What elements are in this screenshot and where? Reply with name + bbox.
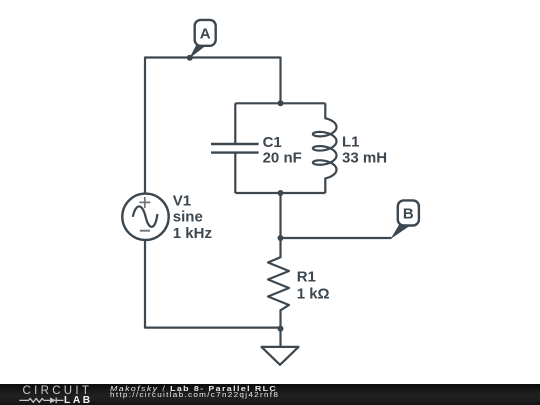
svg-text:20 nF: 20 nF [263,149,302,166]
svg-text:V1: V1 [173,193,191,210]
svg-text:1 kΩ: 1 kΩ [297,285,330,302]
svg-text:33 mH: 33 mH [342,150,387,167]
svg-text:sine: sine [173,209,203,226]
svg-text:R1: R1 [297,269,316,286]
svg-text:L1: L1 [342,133,360,150]
svg-text:C1: C1 [263,134,282,151]
svg-text:1 kHz: 1 kHz [173,225,212,242]
svg-text:B: B [403,205,414,222]
svg-text:A: A [200,25,211,42]
